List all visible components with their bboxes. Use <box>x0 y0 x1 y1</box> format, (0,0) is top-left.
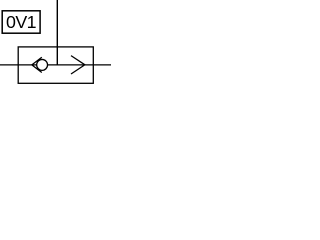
background <box>0 0 111 104</box>
svg-text:0V1: 0V1 <box>6 12 37 32</box>
wire: vertical line from top to T-junction on flow line <box>56 0 58 66</box>
wire: horizontal flow line through valve <box>0 64 111 66</box>
left valve seat <box>32 57 42 72</box>
label box <box>2 11 40 33</box>
right valve seat <box>71 56 85 74</box>
ball (check element) <box>37 59 48 70</box>
valve body 0V1 (shuttle valve rectangle) <box>18 47 93 83</box>
